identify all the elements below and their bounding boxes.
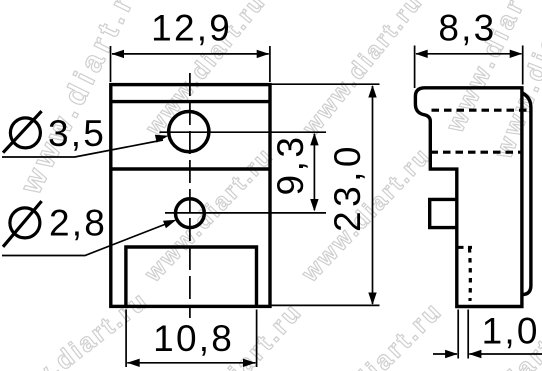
svg-text:1,0: 1,0 (482, 311, 540, 352)
svg-text:3,5: 3,5 (48, 113, 106, 154)
diameter symbol circle for Ø3,5 (10, 118, 40, 148)
dim 1,0 right lead line (469, 353, 542, 355)
front view outer body rectangle (111, 85, 270, 307)
dim 23,0 top extension line (271, 83, 380, 85)
dim 9,3 dimension line (313, 134, 315, 210)
dim 12,9 dimension line (112, 53, 269, 55)
dim 23,0 top arrowhead (368, 85, 376, 98)
leader arrowhead Ø2,8 (163, 220, 177, 228)
hidden edge line lower (431, 151, 522, 154)
dim 8,3 dimension line (416, 53, 522, 55)
dim 10,8 right arrowhead (243, 359, 256, 367)
dim 1,0 left arrowhead (445, 350, 458, 358)
dim 23,0 dimension line (372, 86, 374, 304)
hole Ø2.8 circle (176, 199, 205, 228)
svg-text:10,8: 10,8 (153, 318, 234, 359)
dim 1,0 left lead line (433, 353, 457, 355)
svg-text:12,9: 12,9 (151, 7, 232, 48)
svg-text:9,3: 9,3 (270, 134, 311, 196)
dim 10,8 right extension line (256, 310, 258, 368)
dim 1,0 right extension line (467, 310, 469, 359)
hidden short horizontal edge (458, 246, 473, 249)
dim 23,0 bottom arrowhead (368, 293, 376, 306)
hidden vertical dotted edge (468, 248, 472, 301)
dim 12,9 left extension line (110, 46, 112, 82)
side view main profile outline (415, 88, 522, 307)
dim 1,0 left extension line (457, 310, 459, 359)
diameter symbol circle for Ø2,8 (10, 208, 40, 238)
hole Ø3.5 circle (169, 112, 209, 152)
dim 8,3 right arrowhead (510, 50, 523, 58)
diameter symbol slash for Ø2,8 (3, 201, 42, 247)
dim 8,3 left extension line (414, 46, 416, 89)
dim 12,9 right arrowhead (257, 50, 270, 58)
svg-text:2,8: 2,8 (49, 203, 107, 244)
side view outer hook wall (522, 93, 531, 295)
dim 10,8 left extension line (125, 310, 127, 368)
dim 9,3 top arrowhead (310, 133, 318, 146)
dim 1,0 right arrowhead (469, 350, 482, 358)
dim 8,3 left arrowhead (415, 50, 428, 58)
side view latch tab (430, 199, 457, 227)
dim 8,3 right extension line (522, 46, 524, 85)
hole Ø3.5 horizontal centerline / extension line (159, 131, 326, 133)
svg-text:8,3: 8,3 (438, 7, 496, 48)
hidden edge line upper (432, 109, 530, 112)
front view top band edge line (111, 100, 270, 103)
leader line Ø2,8 (2, 222, 171, 256)
front view mid body edge line (111, 167, 270, 170)
dim 10,8 dimension line (127, 362, 255, 364)
leader line Ø3,5 (2, 140, 163, 157)
dim 23,0 bottom extension line (271, 304, 380, 306)
dim 10,8 left arrowhead (127, 359, 140, 367)
hole Ø2.8 horizontal centerline / extension line (165, 212, 326, 214)
dim 12,9 left arrowhead (112, 50, 125, 58)
diameter symbol slash for Ø3,5 (3, 111, 42, 153)
dim 12,9 right extension line (269, 46, 271, 82)
front view inner bottom window rectangle (126, 247, 257, 306)
vertical centerline dashed (189, 73, 191, 318)
leader arrowhead Ø3,5 (155, 135, 169, 143)
svg-text:23,0: 23,0 (327, 142, 368, 232)
dim 9,3 bottom arrowhead (310, 199, 318, 212)
